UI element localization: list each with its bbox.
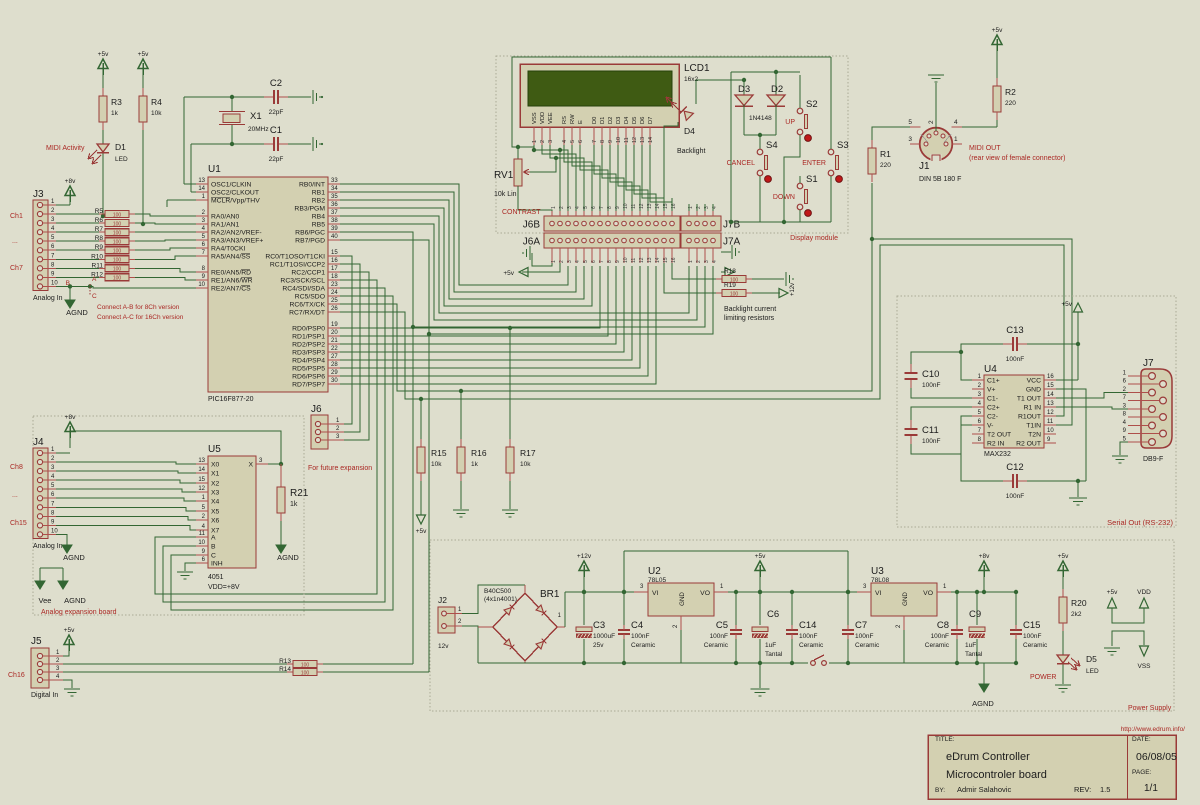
- svg-text:VDD: VDD: [540, 112, 546, 124]
- svg-text:Serial Out (RS-232): Serial Out (RS-232): [1107, 518, 1173, 527]
- svg-text:4: 4: [954, 119, 958, 126]
- svg-text:1: 1: [551, 206, 557, 209]
- svg-text:C13: C13: [1006, 325, 1023, 336]
- svg-text:29: 29: [331, 370, 338, 376]
- svg-text:RB1: RB1: [312, 190, 325, 197]
- svg-text:R2 OUT: R2 OUT: [1016, 441, 1041, 448]
- svg-text:T1IN: T1IN: [1026, 423, 1041, 430]
- svg-text:28: 28: [331, 362, 338, 368]
- svg-text:1uF: 1uF: [765, 642, 776, 649]
- svg-text:+5v: +5v: [98, 51, 109, 58]
- svg-text:ENTER: ENTER: [802, 160, 826, 167]
- svg-text:220: 220: [1005, 100, 1016, 107]
- svg-text:J6: J6: [311, 404, 322, 415]
- svg-text:...: ...: [12, 238, 18, 245]
- svg-text:Analog In: Analog In: [33, 543, 63, 550]
- svg-text:100: 100: [301, 670, 310, 676]
- svg-text:POWER: POWER: [1030, 674, 1056, 681]
- svg-text:10: 10: [51, 528, 58, 534]
- svg-text:26: 26: [331, 306, 338, 312]
- svg-text:06/08/05: 06/08/05: [1136, 751, 1177, 763]
- svg-text:U1: U1: [208, 164, 221, 175]
- svg-text:D1: D1: [115, 142, 126, 152]
- svg-text:R6: R6: [95, 217, 104, 224]
- svg-text:BY:: BY:: [935, 787, 945, 794]
- svg-text:OSC2/CLKOUT: OSC2/CLKOUT: [211, 190, 259, 197]
- svg-text:D4: D4: [684, 126, 695, 136]
- svg-text:LCD1: LCD1: [684, 63, 710, 74]
- svg-text:R13: R13: [279, 658, 291, 665]
- svg-text:RS: RS: [562, 116, 568, 124]
- svg-text:10: 10: [51, 280, 58, 286]
- svg-text:Backlight current: Backlight current: [724, 306, 776, 313]
- svg-text:S2: S2: [806, 99, 818, 110]
- svg-text:8: 8: [607, 206, 613, 209]
- svg-text:15: 15: [663, 257, 669, 263]
- svg-text:+5v: +5v: [992, 27, 1003, 34]
- svg-text:12: 12: [632, 137, 638, 143]
- svg-text:+5v: +5v: [416, 528, 427, 535]
- svg-text:12: 12: [639, 257, 645, 263]
- svg-text:C: C: [92, 293, 97, 300]
- svg-text:16: 16: [671, 257, 677, 263]
- svg-text:C14: C14: [799, 620, 816, 631]
- svg-text:11: 11: [631, 204, 637, 209]
- svg-text:1k: 1k: [290, 501, 298, 508]
- svg-text:11: 11: [631, 258, 637, 263]
- svg-text:100: 100: [113, 249, 122, 255]
- svg-text:+5v: +5v: [1058, 553, 1069, 560]
- svg-text:A: A: [211, 535, 216, 542]
- svg-text:DATE:: DATE:: [1132, 736, 1151, 743]
- svg-text:(4x1n4001): (4x1n4001): [484, 596, 517, 603]
- svg-text:RD0/PSP0: RD0/PSP0: [292, 326, 325, 333]
- svg-text:X3: X3: [211, 490, 220, 497]
- svg-text:U5: U5: [208, 444, 221, 455]
- svg-text:100nF: 100nF: [922, 382, 940, 389]
- svg-text:4: 4: [575, 206, 581, 209]
- svg-text:AGND: AGND: [66, 308, 88, 317]
- svg-text:15: 15: [198, 477, 205, 483]
- svg-text:MCLR/Vpp/THV: MCLR/Vpp/THV: [211, 198, 260, 205]
- svg-text:1: 1: [688, 260, 694, 263]
- svg-text:C6: C6: [767, 609, 779, 620]
- svg-text:J4: J4: [33, 437, 44, 448]
- svg-text:Ceramic: Ceramic: [1023, 642, 1048, 649]
- svg-text:10: 10: [198, 282, 205, 288]
- svg-text:RC6/TX/CK: RC6/TX/CK: [289, 302, 325, 309]
- svg-text:AGND: AGND: [63, 553, 85, 562]
- svg-text:100nF: 100nF: [631, 633, 649, 640]
- svg-text:X0: X0: [211, 462, 220, 469]
- svg-text:R18: R18: [724, 268, 736, 275]
- svg-text:12: 12: [198, 486, 205, 492]
- svg-text:100nF: 100nF: [1023, 633, 1041, 640]
- svg-text:19: 19: [331, 322, 338, 328]
- svg-text:D6: D6: [640, 117, 646, 124]
- svg-text:3: 3: [567, 206, 573, 209]
- svg-text:V-: V-: [987, 423, 993, 430]
- svg-text:J7: J7: [1143, 358, 1154, 369]
- svg-text:C2+: C2+: [987, 405, 1000, 412]
- svg-text:7: 7: [592, 140, 598, 143]
- svg-text:RB7/PGD: RB7/PGD: [295, 238, 325, 245]
- svg-text:10k: 10k: [431, 461, 442, 468]
- svg-text:100nF: 100nF: [1006, 493, 1024, 500]
- svg-text:1N4148: 1N4148: [749, 115, 772, 122]
- svg-text:1/1: 1/1: [1144, 783, 1158, 794]
- svg-text:C1-: C1-: [987, 396, 998, 403]
- svg-text:2: 2: [696, 260, 702, 263]
- svg-text:13: 13: [647, 203, 653, 209]
- svg-text:Vee: Vee: [39, 596, 52, 605]
- svg-text:+12v: +12v: [577, 553, 592, 560]
- svg-text:R1: R1: [880, 149, 891, 159]
- svg-text:J6B: J6B: [523, 220, 541, 231]
- svg-text:10k: 10k: [151, 110, 162, 117]
- svg-text:Display module: Display module: [790, 235, 838, 242]
- svg-text:2: 2: [540, 140, 546, 143]
- svg-text:14: 14: [198, 186, 205, 192]
- svg-text:Ceramic: Ceramic: [855, 642, 880, 649]
- svg-text:X4: X4: [211, 499, 220, 506]
- svg-text:23: 23: [331, 282, 338, 288]
- svg-text:S4: S4: [766, 140, 778, 151]
- svg-text:DB9-F: DB9-F: [1143, 456, 1163, 463]
- svg-text:25v: 25v: [593, 642, 604, 649]
- svg-text:Ch8: Ch8: [10, 464, 23, 471]
- svg-text:100: 100: [730, 291, 739, 297]
- svg-text:B40C500: B40C500: [484, 588, 511, 595]
- svg-text:Ceramic: Ceramic: [631, 642, 656, 649]
- svg-text:C1: C1: [270, 125, 282, 136]
- svg-text:2: 2: [559, 206, 565, 209]
- svg-text:RE1/AN6/WR: RE1/AN6/WR: [211, 278, 253, 285]
- svg-text:U2: U2: [648, 566, 661, 577]
- svg-text:C2: C2: [270, 78, 282, 89]
- svg-text:13: 13: [198, 178, 205, 184]
- svg-text:C8: C8: [937, 620, 949, 631]
- svg-text:GND: GND: [679, 592, 686, 606]
- svg-text:R11: R11: [92, 262, 104, 269]
- svg-text:20: 20: [331, 330, 338, 336]
- svg-text:J6A: J6A: [523, 237, 541, 248]
- svg-text:+8v: +8v: [65, 178, 76, 185]
- svg-text:6: 6: [591, 206, 597, 209]
- svg-text:Analog expansion board: Analog expansion board: [41, 609, 117, 616]
- svg-text:+5v: +5v: [1107, 589, 1118, 596]
- svg-text:PAGE:: PAGE:: [1132, 769, 1152, 776]
- svg-text:33: 33: [331, 178, 338, 184]
- svg-text:C10: C10: [922, 369, 939, 380]
- svg-text:35: 35: [331, 194, 338, 200]
- svg-text:+5v: +5v: [138, 51, 149, 58]
- svg-text:10: 10: [198, 540, 205, 546]
- svg-text:RA3/AN3/VREF+: RA3/AN3/VREF+: [211, 238, 263, 245]
- svg-text:X1: X1: [250, 111, 262, 122]
- svg-text:Power Supply: Power Supply: [1128, 705, 1172, 712]
- svg-text:Microcontroler board: Microcontroler board: [946, 769, 1047, 781]
- svg-text:9: 9: [615, 206, 621, 209]
- svg-text:RE0/AN5/RD: RE0/AN5/RD: [211, 270, 251, 277]
- svg-text:MIDI OUT: MIDI OUT: [969, 145, 1001, 152]
- svg-text:4: 4: [575, 260, 581, 263]
- svg-text:D1: D1: [600, 117, 606, 124]
- svg-text:2k2: 2k2: [1071, 611, 1082, 618]
- svg-text:4051: 4051: [208, 574, 224, 581]
- svg-text:T2 OUT: T2 OUT: [987, 432, 1011, 439]
- svg-text:8: 8: [607, 260, 613, 263]
- svg-text:R8: R8: [95, 235, 104, 242]
- svg-text:30: 30: [331, 378, 338, 384]
- svg-text:Ceramic: Ceramic: [704, 642, 729, 649]
- svg-text:C11: C11: [922, 425, 939, 436]
- svg-text:36: 36: [331, 202, 338, 208]
- svg-text:14: 14: [655, 257, 661, 263]
- svg-text:Admir Salahovic: Admir Salahovic: [957, 785, 1011, 794]
- svg-text:RD2/PSP2: RD2/PSP2: [292, 342, 325, 349]
- svg-text:RB2: RB2: [312, 198, 325, 205]
- svg-text:D5: D5: [632, 117, 638, 124]
- svg-text:T1 OUT: T1 OUT: [1017, 396, 1041, 403]
- svg-text:220: 220: [880, 162, 891, 169]
- svg-text:X1: X1: [211, 471, 220, 478]
- svg-text:RB5: RB5: [312, 222, 325, 229]
- svg-text:RD5/PSP5: RD5/PSP5: [292, 366, 325, 373]
- svg-text:Connect A-C for 16Ch version: Connect A-C for 16Ch version: [97, 314, 184, 321]
- svg-text:+5v: +5v: [1061, 301, 1072, 308]
- svg-text:1000uF: 1000uF: [593, 633, 615, 640]
- svg-text:Tantal: Tantal: [965, 651, 983, 658]
- svg-text:39: 39: [331, 226, 338, 232]
- svg-text:10: 10: [616, 137, 622, 143]
- svg-text:3: 3: [908, 136, 912, 143]
- svg-text:5: 5: [908, 119, 912, 126]
- svg-text:22: 22: [331, 346, 338, 352]
- svg-text:3: 3: [567, 260, 573, 263]
- svg-text:J3: J3: [33, 189, 44, 200]
- svg-text:5: 5: [570, 140, 576, 143]
- svg-text:VCC: VCC: [1027, 378, 1041, 385]
- svg-text:13: 13: [640, 137, 646, 143]
- svg-text:12: 12: [639, 203, 645, 209]
- svg-text:MAX232: MAX232: [984, 451, 1011, 458]
- svg-text:18: 18: [331, 274, 338, 280]
- svg-text:D3: D3: [616, 117, 622, 124]
- svg-text:AGND: AGND: [277, 553, 299, 562]
- svg-text:TITLE:: TITLE:: [935, 736, 955, 743]
- svg-text:R19: R19: [724, 282, 736, 289]
- svg-text:1.5: 1.5: [1100, 785, 1110, 794]
- svg-text:RC5/SDO: RC5/SDO: [295, 294, 325, 301]
- svg-text:U3: U3: [871, 566, 884, 577]
- svg-text:VI: VI: [875, 590, 882, 597]
- svg-text:10: 10: [1047, 428, 1054, 434]
- svg-text:RB4: RB4: [312, 214, 325, 221]
- svg-text:15: 15: [331, 250, 338, 256]
- svg-text:C9: C9: [969, 609, 981, 620]
- svg-text:X5: X5: [211, 509, 220, 516]
- svg-text:RC1/T1OSI/CCP2: RC1/T1OSI/CCP2: [270, 262, 325, 269]
- svg-text:VDD: VDD: [1137, 589, 1151, 596]
- svg-text:D3: D3: [738, 84, 750, 95]
- svg-text:13: 13: [198, 458, 205, 464]
- svg-text:13: 13: [1047, 401, 1054, 407]
- svg-text:limiting resistors: limiting resistors: [724, 315, 775, 322]
- svg-text:+8v: +8v: [65, 414, 76, 421]
- svg-text:(rear view of female connector: (rear view of female connector): [969, 155, 1065, 162]
- svg-text:PIC16F877-20: PIC16F877-20: [208, 396, 254, 403]
- svg-text:RA4/T0CKI: RA4/T0CKI: [211, 246, 245, 253]
- svg-text:Connect A-B for 8Ch version: Connect A-B for 8Ch version: [97, 304, 180, 311]
- svg-text:X2: X2: [211, 481, 220, 488]
- svg-text:11: 11: [1047, 419, 1054, 425]
- svg-text:1k: 1k: [111, 110, 119, 117]
- svg-text:RD4/PSP4: RD4/PSP4: [292, 358, 325, 365]
- svg-text:RE2/AN7/CS: RE2/AN7/CS: [211, 286, 251, 293]
- svg-text:Ceramic: Ceramic: [925, 642, 950, 649]
- svg-text:...: ...: [12, 492, 18, 499]
- svg-text:R21: R21: [290, 488, 309, 499]
- svg-text:C3: C3: [593, 620, 605, 631]
- svg-text:AGND: AGND: [64, 596, 86, 605]
- svg-text:100: 100: [113, 221, 122, 227]
- svg-text:100nF: 100nF: [922, 438, 940, 445]
- svg-text:Ch7: Ch7: [10, 265, 23, 272]
- svg-text:100nF: 100nF: [855, 633, 873, 640]
- svg-text:RD1/PSP1: RD1/PSP1: [292, 334, 325, 341]
- svg-text:3: 3: [548, 140, 554, 143]
- svg-text:10k: 10k: [520, 461, 531, 468]
- svg-text:+8v: +8v: [979, 553, 990, 560]
- svg-text:21: 21: [331, 338, 338, 344]
- svg-text:J1: J1: [919, 161, 930, 172]
- svg-text:+5v: +5v: [503, 270, 514, 277]
- svg-text:RC4/SDI/SDA: RC4/SDI/SDA: [282, 286, 325, 293]
- svg-text:RA5/AN4/SS: RA5/AN4/SS: [211, 254, 251, 261]
- svg-text:REV:: REV:: [1074, 785, 1091, 794]
- svg-text:T2N: T2N: [1028, 432, 1041, 439]
- svg-text:http://www.edrum.info/: http://www.edrum.info/: [1121, 726, 1185, 733]
- svg-text:17: 17: [331, 266, 338, 272]
- svg-text:11: 11: [199, 531, 206, 537]
- svg-text:R10: R10: [91, 253, 103, 260]
- svg-text:100nF: 100nF: [710, 633, 728, 640]
- svg-text:2: 2: [559, 260, 565, 263]
- svg-text:VSS: VSS: [532, 112, 538, 124]
- svg-text:Backlight: Backlight: [677, 148, 705, 155]
- svg-text:15: 15: [1047, 383, 1054, 389]
- svg-text:100nF: 100nF: [1006, 356, 1024, 363]
- svg-text:14: 14: [655, 203, 661, 209]
- svg-text:LED: LED: [1086, 668, 1099, 675]
- svg-text:22pF: 22pF: [269, 109, 284, 116]
- svg-text:D5: D5: [1086, 654, 1097, 664]
- svg-text:4: 4: [712, 260, 718, 263]
- svg-text:D2: D2: [771, 84, 783, 95]
- svg-text:1uF: 1uF: [965, 642, 976, 649]
- svg-text:D4: D4: [624, 116, 630, 124]
- svg-text:RA1/AN1: RA1/AN1: [211, 222, 240, 229]
- svg-text:37: 37: [331, 210, 338, 216]
- svg-text:RC3/SCK/SCL: RC3/SCK/SCL: [280, 278, 325, 285]
- svg-text:RB6/PGC: RB6/PGC: [295, 230, 325, 237]
- svg-text:13: 13: [647, 257, 653, 263]
- svg-text:40: 40: [331, 234, 338, 240]
- svg-text:+5v: +5v: [64, 627, 75, 634]
- svg-text:Analog In: Analog In: [33, 295, 63, 302]
- svg-text:8: 8: [600, 140, 606, 143]
- svg-text:RC2/CCP1: RC2/CCP1: [291, 270, 325, 277]
- svg-text:7: 7: [599, 260, 605, 263]
- svg-text:Ch1: Ch1: [10, 213, 23, 220]
- svg-text:38: 38: [331, 218, 338, 224]
- svg-text:Digital In: Digital In: [31, 692, 58, 699]
- svg-text:D0: D0: [592, 117, 598, 124]
- svg-text:7: 7: [599, 206, 605, 209]
- svg-text:1: 1: [532, 140, 538, 143]
- svg-text:100nF: 100nF: [931, 633, 949, 640]
- svg-text:B: B: [66, 280, 70, 287]
- svg-text:100: 100: [113, 267, 122, 273]
- svg-text:R3: R3: [111, 97, 122, 107]
- svg-text:+5v: +5v: [755, 553, 766, 560]
- svg-text:For future expansion: For future expansion: [308, 465, 372, 472]
- svg-text:R17: R17: [520, 448, 536, 458]
- svg-text:C2-: C2-: [987, 414, 998, 421]
- svg-text:D2: D2: [608, 117, 614, 124]
- svg-text:MIDI Activity: MIDI Activity: [46, 145, 85, 152]
- svg-text:22pF: 22pF: [269, 156, 284, 163]
- svg-text:2: 2: [928, 120, 935, 124]
- svg-text:R1 IN: R1 IN: [1024, 405, 1041, 412]
- svg-text:R16: R16: [471, 448, 487, 458]
- svg-text:R2 IN: R2 IN: [987, 441, 1004, 448]
- svg-text:RC7/RX/DT: RC7/RX/DT: [289, 310, 325, 317]
- svg-text:VEE: VEE: [548, 112, 554, 124]
- svg-text:R4: R4: [151, 97, 162, 107]
- svg-text:VO: VO: [700, 590, 710, 597]
- svg-text:LED: LED: [115, 156, 128, 163]
- svg-text:14: 14: [648, 137, 654, 143]
- svg-text:12: 12: [1047, 410, 1054, 416]
- svg-text:3: 3: [704, 260, 710, 263]
- svg-text:R20: R20: [1071, 598, 1087, 608]
- svg-text:Ch15: Ch15: [10, 520, 27, 527]
- svg-text:J2: J2: [438, 595, 447, 605]
- svg-text:C7: C7: [855, 620, 867, 631]
- svg-text:1k: 1k: [471, 461, 479, 468]
- svg-text:C4: C4: [631, 620, 643, 631]
- svg-text:100: 100: [113, 258, 122, 264]
- svg-text:RA0/AN0: RA0/AN0: [211, 214, 240, 221]
- svg-text:AGND: AGND: [972, 699, 994, 708]
- svg-text:14: 14: [1047, 392, 1054, 398]
- svg-text:VI: VI: [652, 590, 659, 597]
- svg-text:9: 9: [615, 260, 621, 263]
- svg-text:OSC1/CLKIN: OSC1/CLKIN: [211, 182, 252, 189]
- svg-text:100: 100: [113, 239, 122, 245]
- svg-text:C: C: [211, 553, 216, 560]
- svg-text:CONTRAST: CONTRAST: [502, 209, 541, 216]
- svg-text:RD3/PSP3: RD3/PSP3: [292, 350, 325, 357]
- svg-text:R5: R5: [95, 208, 104, 215]
- svg-text:9: 9: [608, 140, 614, 143]
- svg-text:D7: D7: [648, 117, 654, 124]
- svg-text:RW: RW: [570, 114, 576, 124]
- svg-text:16: 16: [331, 258, 338, 264]
- svg-text:X: X: [248, 462, 253, 469]
